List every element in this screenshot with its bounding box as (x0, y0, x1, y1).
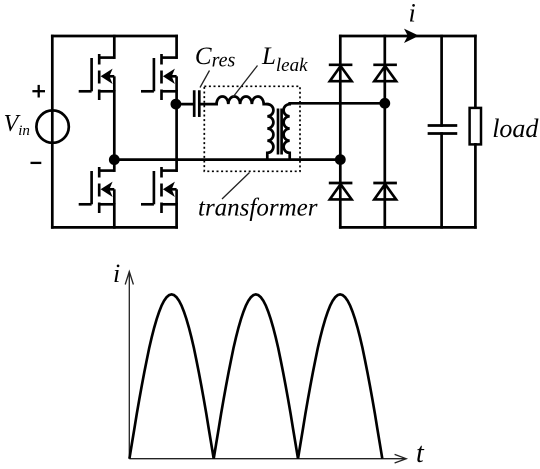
diode D1 upper-left (329, 65, 353, 81)
arrow current i on top rail (404, 29, 419, 43)
wire Q4 drain from node B (175, 104, 178, 171)
wire Q2 source to node B (175, 91, 178, 104)
transformer primary winding (267, 104, 273, 159)
node A dot (left leg midpoint) (109, 154, 120, 165)
svg-text:t: t (416, 438, 425, 469)
diode D4 lower-right (373, 183, 397, 199)
transistor Q4 bottom-right MOSFET (141, 167, 177, 213)
label minus (31, 162, 42, 164)
wire capacitor leads (440, 36, 443, 126)
label + (32, 85, 45, 98)
wire rectifier right leg (383, 36, 386, 227)
transformer core (277, 109, 280, 155)
capacitor output plates (429, 124, 456, 127)
capacitor Cres plates (193, 92, 196, 116)
waveform y axis (128, 272, 130, 459)
wire Q3 source (113, 204, 116, 227)
wire rectifier bottom rail (340, 226, 475, 229)
wire Q2 drain (175, 36, 178, 58)
node C dot secondary top to right leg (379, 98, 390, 109)
wire bottom rail (bridge inverter) (52, 226, 176, 229)
transistor Q2 top-right MOSFET (141, 54, 177, 100)
wire secondary top to rectifier (290, 102, 385, 105)
svg-text:i: i (409, 0, 416, 28)
transistor Q3 bottom-left MOSFET (79, 167, 115, 213)
diode D3 lower-left (329, 183, 353, 199)
waveform x axis (129, 458, 406, 460)
resistor load rectangle (474, 36, 477, 108)
wire node B to Cres (176, 103, 192, 106)
pointer line Lleak (233, 66, 258, 98)
wire top rail (bridge inverter) (52, 35, 176, 38)
wire Q3 drain from node A (113, 160, 116, 171)
svg-text:load: load (492, 114, 539, 143)
transformer secondary winding (284, 104, 290, 159)
source Vin circle (36, 110, 68, 142)
wire Q1 source to node A (113, 91, 116, 159)
svg-text:i: i (113, 259, 120, 288)
wire primary bottom return (114, 158, 340, 161)
svg-text:transformer: transformer (198, 195, 318, 222)
inductor Lleak coil (217, 97, 268, 105)
wire rectifier left leg (339, 36, 342, 227)
node D dot secondary bottom to left leg (335, 154, 346, 165)
wire left rail with Vin (51, 36, 54, 227)
transformer dashed box (204, 86, 300, 171)
wire Cres to Lleak (201, 103, 217, 106)
node B dot (right leg midpoint) (171, 99, 182, 110)
pointer line Cres (200, 71, 210, 88)
curve current waveform (129, 294, 382, 458)
wire Q1 drain (113, 36, 116, 58)
transistor Q1 top-left MOSFET (79, 54, 115, 100)
pointer line transformer (222, 173, 250, 200)
diode D2 upper-right (373, 65, 397, 81)
wire Q4 source (175, 204, 178, 227)
wire rectifier top rail (340, 35, 475, 38)
